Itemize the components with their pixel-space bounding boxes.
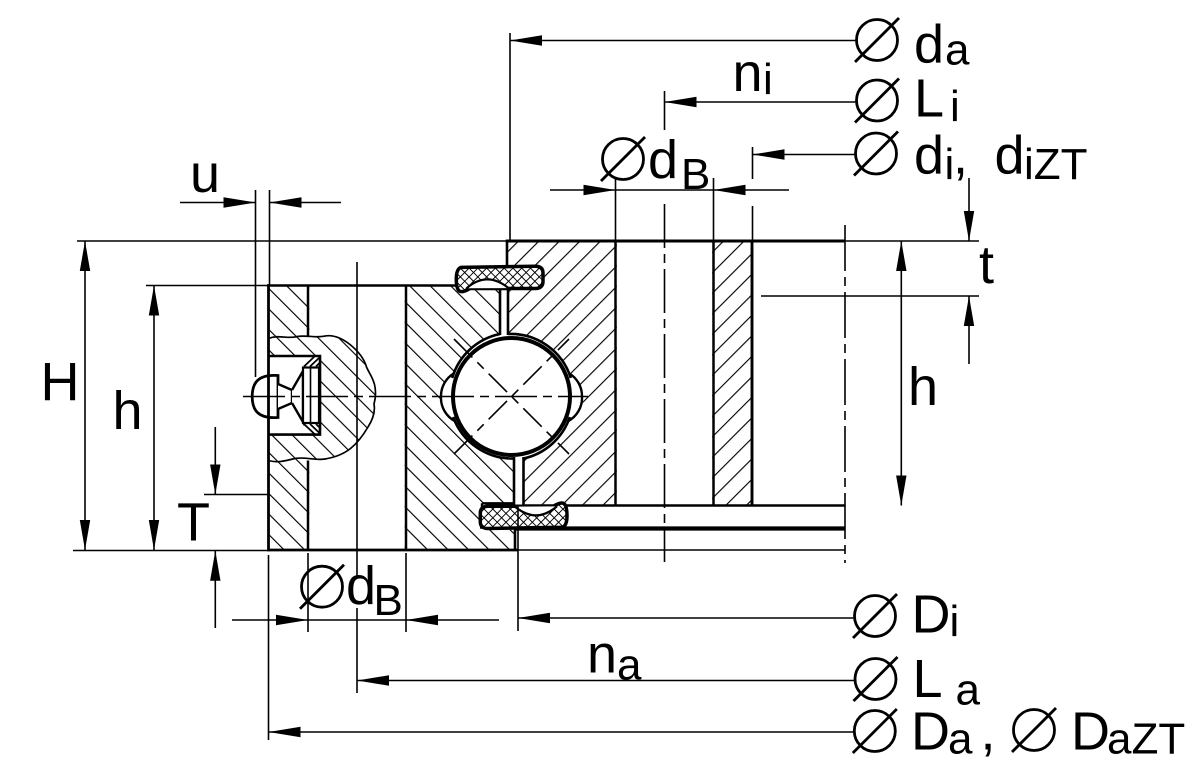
svg-text:h: h — [113, 381, 143, 441]
svg-text:u: u — [190, 144, 220, 204]
svg-text:i: i — [950, 82, 960, 131]
svg-text:T: T — [177, 493, 210, 553]
svg-text:i: i — [950, 597, 960, 646]
svg-text:a: a — [948, 715, 973, 764]
svg-text:D: D — [912, 585, 951, 645]
svg-text:d: d — [914, 15, 944, 75]
svg-text:D: D — [1071, 702, 1110, 762]
svg-text:h: h — [908, 357, 938, 417]
svg-text:,: , — [981, 702, 996, 762]
svg-text:n: n — [587, 625, 617, 685]
svg-text:aZT: aZT — [1107, 715, 1185, 764]
svg-text:a: a — [617, 641, 642, 690]
svg-text:,: , — [953, 126, 968, 186]
svg-text:H: H — [41, 352, 80, 412]
svg-text:i: i — [763, 55, 773, 104]
svg-text:n: n — [733, 43, 763, 103]
svg-text:d: d — [995, 126, 1025, 186]
svg-text:a: a — [956, 666, 981, 715]
svg-text:L: L — [913, 649, 943, 709]
svg-text:iZT: iZT — [1024, 140, 1088, 189]
svg-text:L: L — [914, 69, 944, 129]
svg-text:B: B — [374, 576, 403, 625]
svg-text:t: t — [979, 235, 994, 295]
svg-text:a: a — [945, 26, 970, 75]
svg-text:B: B — [681, 150, 710, 199]
svg-text:d: d — [648, 130, 678, 190]
svg-text:D: D — [911, 702, 950, 762]
svg-text:d: d — [346, 556, 376, 616]
svg-text:d: d — [914, 126, 944, 186]
